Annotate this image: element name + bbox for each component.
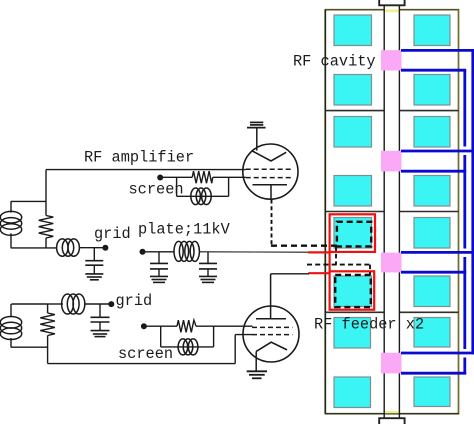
red feeder stub upper bbox=[308, 251, 330, 253]
cavity cell L6 bbox=[334, 276, 372, 307]
red feeder box lower bbox=[330, 271, 375, 309]
inductor L2 stub top bbox=[10, 304, 12, 317]
ground plate right bbox=[199, 276, 217, 282]
cavity cell R7 bbox=[414, 318, 450, 348]
wire tank2 top bbox=[11, 303, 47, 305]
inductor plate bbox=[174, 241, 199, 261]
blue feed line p3 top bbox=[401, 251, 474, 254]
ground grid bottom bbox=[91, 331, 110, 337]
wire screen bottom shunt right bbox=[213, 326, 215, 347]
capacitor grid top ground lead bbox=[93, 265, 95, 274]
coupling loop dashed rect upper bbox=[337, 222, 371, 247]
node plate dot bbox=[140, 249, 146, 255]
beam pipe yellow top bbox=[384, 9, 400, 12]
red feeder stub lower bbox=[308, 272, 330, 274]
beam pipe yellow bottom bbox=[384, 411, 400, 413]
thin dashed loop line bbox=[307, 264, 370, 266]
op-amp tube V2 envelope bbox=[243, 306, 299, 362]
cavity cell R2 bbox=[414, 75, 450, 106]
tube 1 cathode bbox=[253, 184, 288, 186]
dashed drop from tube 1 bbox=[271, 200, 273, 245]
svg-text:RF amplifier: RF amplifier bbox=[84, 149, 194, 167]
op-amp tube V1 envelope bbox=[243, 144, 298, 199]
cavity cell R6 bbox=[414, 276, 450, 307]
red feeder box upper bbox=[330, 214, 375, 252]
cavity cell L2 bbox=[334, 75, 372, 106]
blue feed line p4 bottom bbox=[401, 372, 466, 375]
blue feed line p2 bottom bbox=[401, 170, 466, 173]
tube 2 grid row 2 bbox=[252, 334, 292, 336]
node grid bottom dot bbox=[108, 301, 114, 307]
ground plate left bbox=[150, 276, 168, 282]
blue feed line p3 bottom bbox=[401, 271, 466, 274]
capacitor plate right bbox=[199, 263, 217, 269]
wire plate to cavity bbox=[200, 251, 309, 253]
svg-text:RF cavity: RF cavity bbox=[293, 53, 376, 71]
wire tube 2 plate to cavity bbox=[271, 273, 309, 275]
wire grid return vertical bbox=[234, 335, 236, 364]
beam pipe right wall bbox=[398, 5, 400, 418]
wire screen bottom left bbox=[144, 325, 177, 327]
cavity cell R3 bbox=[414, 117, 450, 148]
inductor L1 bbox=[0, 211, 21, 235]
wire screen bottom shunt bottom bbox=[161, 346, 214, 348]
cavity cell L8 bbox=[334, 377, 371, 408]
ground tube 2 bbox=[247, 371, 267, 378]
wire tank1 bottom bbox=[11, 247, 57, 249]
cavity cell divider 1 bbox=[325, 110, 458, 112]
inductor screen bottom bbox=[178, 339, 198, 355]
RF cavity outer box bbox=[325, 10, 460, 414]
capacitor grid top lead bbox=[93, 248, 95, 261]
svg-text:grid: grid bbox=[94, 225, 131, 243]
wire screen shunt left bbox=[176, 177, 178, 196]
capacitor plate right ground lead bbox=[207, 269, 209, 277]
wire grid return bottom bbox=[48, 363, 236, 365]
beam pipe left wall bbox=[383, 5, 385, 418]
cavity cell L3 bbox=[334, 117, 372, 148]
wire grid top bbox=[79, 247, 105, 249]
wire tank1 top bbox=[11, 200, 46, 202]
coupler pink 3 bbox=[381, 253, 402, 273]
beam pipe strip bbox=[384, 9, 399, 413]
cavity cell divider 2 bbox=[325, 211, 458, 213]
node screen bottom dot bbox=[141, 323, 147, 329]
tube 1 anode cap bbox=[247, 122, 266, 127]
tube 1 grid row 1 bbox=[246, 168, 293, 170]
wire grid return stub bbox=[235, 334, 252, 336]
ground grid top bbox=[85, 274, 103, 280]
wire below resistor R3 bbox=[47, 336, 49, 364]
cavity cell L4 bbox=[334, 176, 372, 207]
blue inner rail segment 1 bbox=[463, 70, 466, 146]
cavity cell L1 bbox=[334, 15, 372, 46]
wire main plate line top bbox=[46, 169, 246, 171]
thin dashed loop vertical right bbox=[369, 265, 371, 275]
capacitor grid bottom bbox=[91, 317, 110, 322]
capacitor grid top bbox=[85, 261, 103, 266]
cavity cell R4 bbox=[414, 176, 450, 207]
tube 2 cathode lead bbox=[255, 351, 257, 371]
wire screen top left bbox=[160, 176, 192, 178]
svg-text:RF feeder x2: RF feeder x2 bbox=[314, 316, 424, 334]
wire screen shunt right bbox=[228, 177, 230, 196]
inductor L2 stub bottom bbox=[10, 338, 12, 347]
thin dashed loop vertical left bbox=[335, 246, 337, 264]
capacitor plate left bbox=[150, 263, 168, 269]
wire screen shunt bottom bbox=[177, 195, 229, 197]
wire screen bottom right bbox=[196, 325, 253, 327]
wire screen bottom shunt left bbox=[160, 326, 162, 347]
svg-text:plate;11kV: plate;11kV bbox=[138, 221, 231, 239]
inductor grid top bbox=[57, 239, 80, 256]
coupler pink 4 bbox=[381, 353, 402, 374]
inductor L1 stub bottom bbox=[10, 233, 12, 248]
resistor R4 screen bottom bbox=[177, 320, 196, 332]
node screen top dot bbox=[157, 175, 163, 181]
blue outer rail bbox=[471, 50, 474, 354]
wire left vertical top section bbox=[45, 170, 47, 216]
cavity cell L7 bbox=[334, 318, 371, 349]
svg-text:screen: screen bbox=[129, 181, 184, 199]
wire plate left bbox=[143, 251, 175, 253]
blue inner rail segment 4 bbox=[463, 358, 466, 375]
cavity cell R5 bbox=[414, 218, 450, 249]
resistor R2 screen top bbox=[192, 171, 213, 183]
inductor L1 stub top bbox=[10, 201, 12, 212]
cavity cell divider 3 bbox=[325, 311, 458, 313]
tube 2 cathode V bbox=[256, 342, 287, 351]
wire tank2 to grid coil bbox=[48, 303, 63, 305]
blue inner rail segment 3 bbox=[463, 257, 466, 349]
blue feed line p1 bottom bbox=[401, 69, 466, 72]
cavity cell R8 bbox=[414, 377, 450, 407]
tube 2 plate lead bbox=[270, 274, 272, 319]
wire tank2 bottom bbox=[11, 346, 48, 348]
red feeder connector vertical bbox=[329, 252, 331, 271]
capacitor grid bottom lead bbox=[99, 304, 101, 317]
inductor grid bottom bbox=[62, 294, 85, 314]
capacitor plate left lead bbox=[158, 252, 160, 264]
wire screen top right bbox=[213, 176, 246, 178]
wire below resistor R1 bbox=[45, 238, 47, 248]
beam port bottom bbox=[379, 418, 404, 424]
coupler pink 2 bbox=[381, 151, 402, 172]
coupling loop dashed rect lower bbox=[335, 275, 371, 307]
svg-text:screen: screen bbox=[118, 345, 173, 363]
capacitor grid bottom ground lead bbox=[99, 322, 101, 331]
coupler pink 1 bbox=[381, 50, 402, 70]
beam port top bbox=[379, 0, 404, 5]
wire grid bottom bbox=[85, 303, 112, 305]
blue feed line p4 top bbox=[401, 352, 474, 355]
node grid top dot bbox=[102, 245, 108, 251]
tube 1 plate V bbox=[252, 151, 286, 161]
svg-text:grid: grid bbox=[116, 292, 153, 310]
inductor screen top bbox=[191, 188, 211, 205]
blue inner rail segment 2 bbox=[463, 155, 466, 249]
tube 1 cathode lead bbox=[270, 185, 272, 200]
capacitor plate right lead bbox=[207, 252, 209, 264]
blue feed line p2 top bbox=[401, 150, 474, 153]
blue feed line p1 top bbox=[401, 49, 474, 52]
cavity cell R1 bbox=[414, 15, 450, 46]
tube 2 grid row 1 bbox=[252, 326, 292, 328]
tube 1 anode lead bbox=[256, 128, 258, 151]
thick dashed feeder line bbox=[271, 244, 338, 246]
inductor L2 bbox=[0, 317, 21, 340]
tube 1 grid row 2 bbox=[246, 177, 293, 179]
resistor R3 bbox=[40, 313, 55, 336]
capacitor plate left ground lead bbox=[158, 269, 160, 277]
wire above resistor R3 bbox=[47, 304, 49, 313]
tube 2 plate bar bbox=[256, 318, 286, 320]
resistor R1 bbox=[39, 216, 54, 239]
cavity cell L5 bbox=[334, 218, 372, 249]
